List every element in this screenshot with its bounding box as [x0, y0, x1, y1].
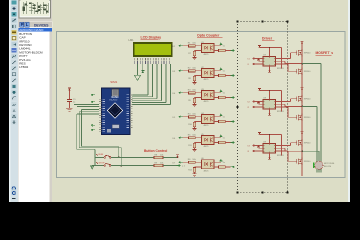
- svg-text:RUN: RUN: [99, 154, 104, 156]
- svg-text:4N25: 4N25: [204, 79, 210, 81]
- icon 2d circle: [12, 90, 17, 95]
- svg-text:5v: 5v: [223, 46, 225, 48]
- terminal arrow arduino 5V: [91, 101, 95, 103]
- workspace beige: [52, 0, 350, 202]
- icon 2d line2: [12, 66, 17, 71]
- svg-text:4N25: 4N25: [204, 125, 210, 127]
- terminal arrow driver U9 HIN: [257, 145, 264, 147]
- sheet interior: [57, 32, 346, 178]
- wire LCD signal 5 to arduino: [165, 64, 167, 103]
- phase node pair 2: [301, 106, 303, 108]
- ground left: [66, 108, 72, 111]
- ground opto 3: [192, 105, 196, 107]
- resistor R10 vertical: [193, 122, 195, 127]
- resistor R5 10k: [189, 137, 196, 139]
- arduino ICSP pads: [107, 129, 111, 132]
- resistor R13: [219, 49, 226, 51]
- transistor Q3 IRF540: [297, 95, 302, 103]
- power terminal opto 5 collector: [219, 136, 222, 138]
- terminal arrow opto 6 input: [179, 161, 184, 163]
- wire opto 5 emitter out: [214, 142, 219, 144]
- svg-text:5v: 5v: [223, 71, 225, 73]
- resistor R8 vertical: [193, 76, 195, 81]
- ground opto 1: [192, 58, 196, 60]
- transistor Q4 IRF540: [297, 114, 302, 122]
- handle dots dashed box: [237, 21, 239, 23]
- terminal arrow opto 3 out: [231, 97, 235, 99]
- icon 2d slash: [12, 78, 17, 83]
- wire input to R4: [183, 116, 188, 118]
- power terminal driver U8 VCC: [258, 88, 261, 90]
- terminal arrow opto 3 input: [179, 92, 184, 94]
- wire buttons to pullups: [119, 156, 154, 158]
- wire LCD signal 4 to arduino: [161, 64, 163, 101]
- svg-text:IR2101: IR2101: [277, 155, 285, 157]
- svg-text:Button Control: Button Control: [144, 149, 167, 153]
- driver U7 COM pin: [269, 66, 271, 71]
- wire input to R2: [183, 70, 188, 72]
- icon graph: [12, 54, 17, 59]
- wire power to C1: [68, 90, 70, 99]
- transistor Q1 IRF540: [297, 49, 302, 57]
- icon mirror: [12, 198, 16, 200]
- icon 2d symbol: [12, 114, 17, 119]
- wire driver U9 HO to gate M5: [276, 145, 291, 147]
- wire opto 4 collector out: [214, 116, 221, 118]
- resistor R9 10k: [154, 164, 163, 166]
- terminal arrow driver U9 LIN: [257, 150, 264, 152]
- svg-text:4N25: 4N25: [204, 146, 210, 148]
- wire emitter to terminal: [225, 142, 230, 144]
- wire emitter to terminal: [225, 97, 230, 99]
- icon pin: [12, 48, 17, 53]
- terminal arrow button out: [177, 165, 181, 167]
- terminal arrow opto 4 input: [179, 116, 184, 118]
- svg-text:P: P: [21, 22, 24, 27]
- wire driver U8 HO to gate M3: [276, 101, 291, 103]
- resistor R17: [219, 141, 226, 143]
- resistor R1 10k: [189, 45, 196, 47]
- svg-text:IRF540: IRF540: [304, 99, 311, 101]
- svg-text:LCD Display: LCD Display: [141, 36, 162, 40]
- icon selection: [12, 1, 17, 5]
- device panel grey background: [18, 0, 52, 202]
- arduino reset button: [112, 125, 119, 128]
- icon bus: [12, 30, 17, 35]
- wire arduino A0 loop to button column 1: [82, 109, 100, 111]
- wire driver U7 LO to gate M2: [276, 63, 289, 65]
- wire LCD signal 3 to arduino: [156, 64, 158, 99]
- wire driver U9 LO to gate M6: [276, 150, 289, 152]
- svg-text:BLDCM: BLDCM: [324, 166, 331, 168]
- wire input to R6: [183, 161, 188, 163]
- wire input to R1: [183, 45, 188, 47]
- resistor R12 vertical: [193, 168, 195, 173]
- opto coupler U1 4N25: [202, 44, 215, 53]
- wire LCD signal 2 to arduino: [152, 64, 154, 97]
- wire C1 to ground: [68, 102, 70, 108]
- wire VB drop right: [281, 48, 283, 69]
- terminal arrow opto 6 out: [231, 166, 235, 168]
- terminal arrow opto 5 out: [231, 142, 235, 144]
- wire opto 5 collector out: [214, 137, 221, 139]
- wire R12 to ground: [194, 172, 196, 174]
- wire opto 1 emitter out: [214, 50, 219, 52]
- wire LCD signal 6 to arduino: [170, 64, 172, 105]
- terminal arrow opto 1 out: [231, 50, 235, 52]
- wire input to R5: [183, 137, 188, 139]
- wire cap node to arduino: [74, 103, 99, 105]
- ground opto 2: [192, 83, 196, 85]
- svg-text:5v: 5v: [223, 93, 225, 95]
- button RUN: [95, 156, 104, 158]
- svg-text:IRF540: IRF540: [304, 143, 311, 145]
- ground buttons: [92, 165, 95, 167]
- arduino right pin labels: [127, 95, 130, 128]
- resistor R15: [219, 96, 226, 98]
- wire R10 to ground: [194, 127, 196, 129]
- transistor Q5 IRF540: [297, 139, 302, 147]
- wire driver U9 VS to phase: [276, 147, 286, 149]
- ground opto 4: [192, 129, 196, 131]
- driver IC U7 IR2101: [263, 57, 276, 67]
- svg-text:MOSFET´ s: MOSFET´ s: [316, 51, 334, 55]
- LCD pin stubs: [135, 61, 169, 64]
- wire opto 3 emitter out: [214, 97, 219, 99]
- ground opto 6: [192, 174, 196, 176]
- terminal arrow opto 5 input: [179, 137, 184, 139]
- icon 2d arc: [12, 96, 17, 101]
- wire emitter to terminal: [225, 50, 230, 52]
- power terminal opto 6 collector: [219, 160, 222, 162]
- icon 2d path: [12, 102, 17, 107]
- icon 2d line: [12, 60, 17, 65]
- svg-text:5v: 5v: [223, 162, 225, 164]
- power terminal opto 1 collector: [219, 44, 222, 46]
- right light line: [348, 0, 350, 202]
- wire opto 3 LED cathode down: [195, 97, 202, 99]
- wire R2 to opto U2: [195, 70, 201, 72]
- power terminal buttons: [176, 154, 179, 156]
- dashed selection box around driver section: [238, 22, 288, 193]
- driver U8 COM pin: [269, 109, 271, 114]
- terminal arrow driver U8 HIN: [257, 101, 264, 103]
- wire driver U7 VS to phase: [276, 60, 286, 62]
- wire opto 1 LED cathode down: [195, 50, 202, 52]
- ground opto 5: [192, 150, 196, 152]
- opto coupler U5 4N25: [202, 136, 215, 145]
- resistor R8 10k: [154, 156, 163, 158]
- arduino left pin labels: [102, 99, 105, 132]
- svg-text:SIM1: SIM1: [110, 80, 117, 84]
- P button: [20, 22, 24, 27]
- wire R7 to ground: [194, 56, 196, 58]
- light edge line left: [9, 0, 11, 202]
- wire emitter to terminal: [225, 166, 230, 168]
- wire phase 3 to motor: [302, 150, 319, 152]
- arduino left pin stubs: [99, 99, 101, 132]
- left toolbar strip: [11, 0, 19, 202]
- icon wire label: [12, 18, 17, 23]
- icon terminal: [12, 42, 17, 47]
- wire driver U7 VCC rail: [269, 48, 271, 57]
- wire R5 to opto U5: [195, 137, 201, 139]
- resistor R14: [219, 74, 226, 76]
- terminal arrow driver U7 LIN: [257, 63, 264, 65]
- icon 2d fillbox: [12, 84, 17, 89]
- power terminal opto 4 collector: [219, 115, 222, 117]
- wire opto 2 collector out: [214, 70, 221, 72]
- opto coupler U2 4N25: [202, 69, 215, 78]
- wire VB drop right: [281, 135, 283, 156]
- resistor R18: [219, 166, 226, 168]
- wire arduino A2 loop to button common: [77, 113, 99, 115]
- svg-text:A: A: [13, 108, 16, 113]
- wire R8 to ground: [194, 81, 196, 83]
- resistor R4 10k: [189, 116, 196, 118]
- wire R3 to opto U3: [195, 92, 201, 94]
- terminal arrow opto 1 input: [179, 45, 184, 47]
- driver IC U8 IR2101: [263, 100, 276, 110]
- opto coupler U6 4N25: [202, 160, 215, 169]
- svg-text:4N25: 4N25: [204, 170, 210, 172]
- power terminal +12V pair 2: [301, 86, 304, 88]
- wire R11 to ground: [194, 148, 196, 150]
- svg-text:IR2101: IR2101: [277, 111, 285, 113]
- icon 2d box: [12, 72, 17, 77]
- opto coupler U4 4N25: [202, 115, 215, 124]
- svg-text:Ela-R3.0: Ela-R3.0: [110, 100, 119, 102]
- wire arduino A1 loop to button column 2: [79, 111, 99, 113]
- LCD pin labels: [135, 58, 169, 61]
- overview preview window: [19, 0, 51, 18]
- list white area: [19, 28, 50, 203]
- wire opto 6 LED cathode down: [195, 166, 202, 168]
- wire button common: [94, 157, 96, 165]
- selected item: [19, 28, 53, 32]
- wire phase 2 to motor: [302, 105, 317, 107]
- wire opto 6 emitter out: [214, 166, 219, 168]
- transistor Q6 IRF540: [297, 158, 302, 166]
- svg-text:5v: 5v: [223, 117, 225, 119]
- terminal arrow opto 2 out: [231, 75, 235, 77]
- svg-text:IR2101: IR2101: [277, 68, 285, 70]
- icon text: [12, 24, 17, 29]
- phase node pair 3: [301, 150, 303, 152]
- svg-text:NANO: NANO: [112, 96, 119, 99]
- power terminal +12V pair 3: [301, 130, 304, 132]
- LCD display LM016L body: [133, 42, 173, 57]
- DEVICES header: [30, 22, 52, 27]
- wire opto 4 emitter out: [214, 121, 219, 123]
- wire VB drop right: [281, 91, 283, 112]
- L button: [25, 22, 29, 27]
- transistor Q2 IRF540: [297, 68, 302, 76]
- power terminal +5V left: [68, 87, 71, 89]
- resistor R11 vertical: [193, 143, 195, 148]
- terminal arrow opto 2 input: [179, 70, 184, 72]
- power terminal +12V pair 1: [301, 40, 304, 42]
- svg-text:LM1: LM1: [129, 38, 135, 42]
- icon subcircuit: [12, 36, 17, 41]
- resistor R16: [219, 120, 226, 122]
- wire driver U8 VS to phase: [276, 103, 286, 105]
- wire opto 2 LED cathode down: [195, 75, 202, 77]
- svg-text:Opto Coupler: Opto Coupler: [197, 34, 220, 38]
- svg-text:IRF540: IRF540: [304, 161, 311, 163]
- terminal arrow driver U8 LIN: [257, 106, 264, 108]
- svg-text:Driver: Driver: [262, 37, 273, 41]
- wire opto 1 collector out: [214, 45, 221, 47]
- wire driver U7 HO to gate M1: [276, 58, 291, 60]
- svg-text:4N25: 4N25: [204, 54, 210, 56]
- power terminal driver U8 pin2: [259, 103, 264, 105]
- sheet border: [57, 32, 346, 178]
- power terminal opto 3 collector: [219, 91, 222, 93]
- drain rail vertical: [301, 42, 303, 176]
- power terminal driver U7 pin2: [259, 60, 264, 62]
- capacitor C1: [67, 99, 72, 101]
- wire phase 1 to motor: [302, 63, 321, 65]
- power terminal driver U7 VCC: [258, 45, 261, 47]
- wire opto 4 LED cathode down: [195, 121, 202, 123]
- phase node pair 1: [301, 63, 303, 65]
- icon 2d text A: [12, 108, 17, 113]
- driver IC U9 IR2101: [263, 144, 276, 154]
- terminal arrow arduino D9: [91, 124, 95, 126]
- arduino USB connector: [112, 89, 119, 96]
- terminal arrow driver U7 HIN: [257, 58, 264, 60]
- resistor R3 10k: [189, 92, 196, 94]
- svg-text:STOP: STOP: [99, 162, 105, 164]
- svg-text:IRF540: IRF540: [304, 117, 311, 119]
- wire driver U8 VCC rail: [269, 91, 271, 100]
- wire R8 to power: [163, 156, 178, 158]
- icon markers: [12, 120, 17, 125]
- ground LCD VSS: [137, 64, 139, 75]
- power terminal opto 2 collector: [219, 69, 222, 71]
- wire opto 5 LED cathode down: [195, 142, 202, 144]
- wire input to R3: [183, 92, 188, 94]
- node dots button columns: [118, 157, 120, 159]
- svg-text:LTB02: LTB02: [19, 65, 28, 69]
- arduino ATmega328 chip: [107, 103, 123, 119]
- wire opto 6 collector out: [214, 161, 221, 163]
- icon rotate ccw: [12, 191, 17, 195]
- arduino nano SIM1 board: [102, 88, 131, 135]
- power terminal driver U9 pin2: [259, 147, 264, 149]
- wire R4 to opto U4: [195, 116, 201, 118]
- arduino right pin stubs: [130, 95, 132, 128]
- icon junction: [12, 12, 17, 17]
- icon rotate cw: [12, 187, 17, 191]
- wire opto 2 emitter out: [214, 75, 219, 77]
- svg-text:DEVICES: DEVICES: [34, 23, 49, 27]
- icon component: [12, 6, 17, 11]
- BLDC motor: [315, 161, 323, 169]
- power terminal driver U9 VCC: [258, 132, 261, 134]
- wire opto 3 collector out: [214, 92, 221, 94]
- svg-text:5v: 5v: [223, 138, 225, 140]
- svg-text:MOTOR-BL: MOTOR-BL: [324, 163, 335, 165]
- wire driver U8 LO to gate M4: [276, 106, 289, 108]
- wire driver U9 VCC rail: [269, 135, 271, 144]
- button STOP: [95, 165, 104, 167]
- resistor R2 10k: [189, 70, 196, 72]
- wire R6 to opto U6: [195, 161, 201, 163]
- resistor R7 vertical: [193, 51, 195, 56]
- wire LCD signal 1 to arduino: [147, 64, 149, 95]
- terminal arrow arduino D10: [91, 129, 95, 131]
- terminal arrow arduino VIN: [91, 94, 95, 96]
- svg-text:IRF540: IRF540: [304, 53, 311, 55]
- wire emitter to terminal: [225, 75, 230, 77]
- resistor R9 vertical: [193, 98, 195, 103]
- resistor R6 10k: [189, 161, 196, 163]
- terminal arrow opto 4 out: [231, 121, 235, 123]
- opto coupler U3 4N25: [202, 91, 215, 100]
- svg-text:4N25: 4N25: [204, 101, 210, 103]
- svg-text:L: L: [26, 22, 29, 27]
- driver U9 COM pin: [269, 153, 271, 158]
- wire emitter to terminal: [225, 121, 230, 123]
- power terminal LCD VDD: [142, 64, 144, 70]
- wire R9 to terminal: [163, 165, 177, 167]
- svg-text:IRF540: IRF540: [304, 71, 311, 73]
- wire R1 to opto U1: [195, 45, 201, 47]
- wire R9 to ground: [194, 103, 196, 105]
